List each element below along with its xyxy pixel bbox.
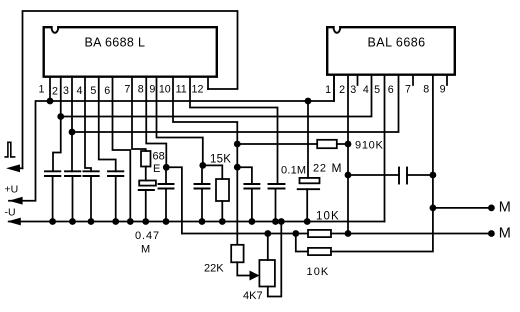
U1 pin numbers — [39, 83, 204, 97]
svg-text:22K: 22K — [204, 263, 224, 275]
wire U1 pin5 to cap C4 — [99, 78, 116, 171]
junction -U / cap C6 — [163, 218, 170, 225]
capacitor C9 — [398, 168, 400, 184]
capacitor 0.47M electrolytic — [139, 181, 156, 186]
junction -U / cap C8 — [249, 218, 256, 225]
IC U2 BAL 6686 — [327, 27, 455, 74]
wire U2 pin8 vertical — [331, 76, 433, 252]
svg-text:10K: 10K — [316, 211, 340, 223]
wire M1 line — [433, 207, 492, 209]
junction -U / 4K7 riser — [278, 218, 285, 225]
svg-text:M: M — [332, 161, 342, 175]
wiper arrow into 4K7 — [250, 271, 260, 281]
capacitor C7 plates — [195, 183, 210, 185]
wire U1 pin2 to cap C1 — [53, 78, 61, 171]
wire 22M bottom to -U — [306, 189, 308, 221]
svg-text:2: 2 — [52, 86, 58, 98]
capacitor C6 plates — [159, 183, 174, 185]
svg-text:1: 1 — [39, 83, 45, 95]
svg-text:3: 3 — [63, 85, 69, 97]
svg-text:M: M — [141, 244, 150, 256]
junction -U / cap 0.1M — [272, 218, 279, 225]
svg-text:5: 5 — [374, 84, 380, 96]
wire U1 pin12 stub to loop — [207, 78, 209, 89]
svg-text:10: 10 — [159, 84, 171, 96]
junction U2 pin8 / cap C9 — [430, 172, 437, 179]
junction 15K / cap C7 node — [199, 162, 206, 169]
svg-text:2: 2 — [339, 84, 345, 96]
svg-text:3: 3 — [350, 84, 356, 96]
capacitor C3 — [83, 170, 98, 172]
wire M2 line — [182, 233, 308, 235]
svg-text:E: E — [153, 163, 160, 175]
wire 10K b left riser — [296, 234, 308, 252]
junction +U rail / 22M tap — [305, 98, 312, 105]
svg-text:12: 12 — [192, 84, 204, 96]
resistor 68E — [141, 151, 151, 167]
svg-text:4K7: 4K7 — [243, 290, 263, 302]
capacitor C4 — [108, 170, 123, 172]
junction -U / 15K — [219, 218, 226, 225]
wire node to cap C8 — [236, 144, 238, 244]
svg-text:22: 22 — [313, 163, 327, 175]
junction -U / cap C4 — [112, 218, 119, 225]
wire 15K bottom to -U — [221, 201, 223, 222]
resistor 10K a — [308, 230, 331, 237]
wire 4K7 top to M2 — [267, 234, 269, 261]
junction -U / cap 0.47M — [142, 218, 149, 225]
wire U1 pin3 bus L5 to U2 pin6 — [72, 76, 399, 132]
svg-text:6: 6 — [388, 84, 394, 96]
wire 0.47M to -U — [145, 190, 147, 222]
junction -U / U1 pin6 — [127, 218, 134, 225]
junction U1 pin2 / bus L4 — [57, 113, 64, 120]
svg-text:M: M — [499, 199, 511, 215]
terminal dot M2 — [488, 230, 495, 237]
wire U1 pin10 bus L3 to 910K node — [173, 78, 237, 144]
wire U1 pin1 stub — [49, 78, 51, 101]
svg-text:BAL 6686: BAL 6686 — [368, 36, 426, 50]
wire U1 pin2 bus L4 to U2 pin4 — [61, 76, 372, 117]
input arrow — [6, 164, 20, 172]
-U arrow — [7, 218, 21, 226]
junction M2 line / 10K b riser — [292, 230, 299, 237]
U2 pin9 tick — [446, 76, 448, 85]
U2 pin numbers — [325, 84, 446, 97]
svg-text:BA 6688 L: BA 6688 L — [85, 36, 146, 50]
wire U1 pin4 to cap C3 — [85, 78, 91, 171]
svg-text:4: 4 — [77, 85, 83, 97]
wire U2 pin1 stub — [333, 76, 335, 101]
wire U1 pin11 bus L2 to cap 0.1M — [190, 78, 278, 184]
wire -U bus — [9, 221, 385, 223]
junction U1 pin8 / cap C6 node — [163, 164, 170, 171]
junction U1 pin3 / bus L5 — [69, 129, 76, 136]
junction +U rail / U1 pin1 — [47, 98, 54, 105]
svg-text:-U: -U — [5, 207, 16, 219]
wire U1 pin9 jog to 15K node — [157, 78, 203, 165]
node tap 22M from +U rail — [307, 101, 309, 178]
junction -U / cap C7 — [199, 218, 206, 225]
svg-text:910K: 910K — [355, 139, 384, 151]
svg-text:M: M — [499, 225, 511, 241]
wire 68E to cap 0.47M — [145, 167, 147, 181]
wire U2 pin5 to -U bus — [384, 76, 386, 222]
junction U2 pin2 / cap C9 — [345, 172, 352, 179]
wire U1 pin8 jog to node — [146, 78, 166, 167]
wire U1 pin6 to -U bus — [113, 78, 131, 222]
resistor 22K — [231, 245, 243, 262]
IC U1 BA 6688 L — [44, 27, 217, 76]
capacitor C8 plates — [244, 183, 259, 185]
svg-text:7: 7 — [405, 84, 411, 96]
junction 910K right / U2 pin2 — [345, 141, 352, 148]
junction -U / cap 22M — [304, 218, 311, 225]
svg-text:9: 9 — [440, 84, 446, 96]
svg-text:9: 9 — [149, 84, 155, 96]
junction -U / cap C3 — [88, 218, 95, 225]
+U arrow — [9, 197, 23, 205]
wire 4K7 bottom to -U — [268, 222, 282, 297]
wire 15K top — [203, 165, 223, 179]
svg-text:11: 11 — [176, 84, 187, 96]
svg-text:1: 1 — [325, 84, 331, 96]
svg-text:15K: 15K — [210, 154, 231, 166]
wire U1 pin3 to cap C2 — [71, 78, 73, 171]
wire cap C8 to -U — [251, 189, 253, 222]
svg-text:0.1M: 0.1M — [281, 165, 306, 177]
wire +U rail L1 — [9, 76, 334, 201]
svg-text:0.47: 0.47 — [135, 230, 160, 242]
svg-text:7: 7 — [124, 84, 130, 96]
svg-text:5: 5 — [90, 85, 96, 97]
resistor 10K b — [308, 248, 331, 255]
resistor 910K — [317, 140, 337, 148]
capacitor C1 — [45, 170, 60, 172]
pulse symbol — [5, 142, 14, 157]
junction node to cap C8 — [234, 164, 241, 171]
capacitor 0.1M plates — [269, 183, 285, 185]
capacitor C2 — [65, 170, 80, 172]
wire cap C9 row — [348, 174, 399, 176]
wire pin8 node to M2 line — [166, 167, 182, 233]
svg-text:8: 8 — [423, 84, 429, 96]
resistor 15K — [216, 179, 229, 201]
wire cap C6 — [165, 167, 167, 184]
junction -U / cap C2 — [69, 218, 76, 225]
wire input loop top — [23, 11, 238, 168]
svg-text:+U: +U — [5, 184, 19, 196]
terminal dot M1 — [488, 205, 495, 212]
wire U1 pin7 to resistor 68E — [132, 78, 146, 151]
U2 pin3 tick — [357, 76, 359, 85]
junction -U / cap C1 — [49, 218, 56, 225]
potentiometer 4K7 — [259, 260, 275, 287]
U2 pin7 tick — [412, 76, 414, 85]
wire U2 pin2 vertical — [347, 76, 349, 234]
junction 910K left node — [234, 141, 241, 148]
svg-text:68: 68 — [153, 151, 165, 163]
svg-text:8: 8 — [138, 84, 144, 96]
svg-text:4: 4 — [363, 84, 369, 96]
wire 910K row — [237, 143, 317, 145]
junction M2 line / U2 pin2 — [345, 230, 352, 237]
wire 22K bottom wiper — [237, 262, 250, 275]
junction U2 pin8 / M1 line — [430, 205, 437, 212]
svg-text:6: 6 — [104, 85, 110, 97]
svg-text:10K: 10K — [307, 266, 330, 278]
junction M2 line / 4K7 top — [264, 230, 271, 237]
capacitor 22M electrolytic — [300, 178, 320, 183]
wire cap C7 — [201, 165, 203, 184]
